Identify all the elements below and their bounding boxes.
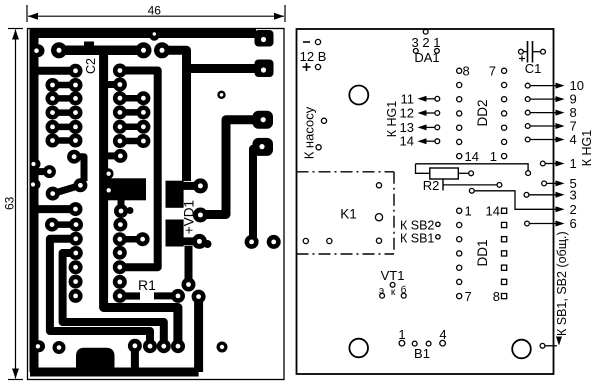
jumper bump on trace xyxy=(84,42,94,48)
capacitor C1 xyxy=(519,41,546,76)
svg-text:4: 4 xyxy=(570,132,577,147)
pad in left border y184 xyxy=(30,179,41,190)
pad bottom free xyxy=(53,341,66,354)
svg-text:3: 3 xyxy=(570,187,577,202)
svg-text:+VD1: +VD1 xyxy=(182,200,197,234)
big pad 4 xyxy=(253,138,274,156)
svg-text:14: 14 xyxy=(465,149,479,164)
svg-text:K1: K1 xyxy=(340,207,357,222)
hole bottom left xyxy=(349,339,368,358)
connector arrows right xyxy=(524,78,584,231)
svg-text:DD1: DD1 xyxy=(475,239,490,266)
trace diagonal xyxy=(46,178,88,200)
svg-text:12: 12 xyxy=(400,106,414,121)
trace dumbbell mid row y112.4 xyxy=(113,105,150,119)
trace pad4 down xyxy=(253,149,259,237)
resistor R1 trace xyxy=(113,289,185,303)
svg-text:11: 11 xyxy=(401,91,415,106)
svg-text:46: 46 xyxy=(148,4,162,18)
trace dumbbell left row y126.9 xyxy=(46,120,83,134)
trace dumbbell row225 xyxy=(45,218,83,232)
diode VD1 pad C xyxy=(166,220,212,249)
pad B xyxy=(193,208,208,223)
trace bus2 xyxy=(162,50,187,181)
svg-text:1: 1 xyxy=(465,204,472,219)
svg-text:13: 13 xyxy=(400,120,414,135)
dimension 63 line xyxy=(2,29,23,380)
pad bus2 start xyxy=(154,42,170,58)
12V plus pad xyxy=(303,63,321,71)
svg-text:DD2: DD2 xyxy=(475,99,490,126)
dimension 46 line xyxy=(27,4,285,23)
hole top left xyxy=(349,86,368,105)
left board outline xyxy=(28,29,285,380)
svg-text:К SB1, SB2 (общ.): К SB1, SB2 (общ.) xyxy=(555,231,569,336)
12V minus pad xyxy=(303,39,321,44)
big pad 2 xyxy=(255,60,274,78)
pad hole on bus1 y174 xyxy=(103,168,114,179)
wire K SB1 SB2 common xyxy=(540,231,569,348)
pad col75 y157 + L trace xyxy=(67,150,84,181)
copper area K-mirror xyxy=(104,178,146,200)
DD1 pin labels xyxy=(465,204,501,305)
trace dumbbell left row y140.5 xyxy=(46,134,83,148)
right board outline xyxy=(297,29,554,374)
trace dumbbell left row y112.6 xyxy=(46,106,83,120)
trace to pad2 xyxy=(187,64,255,73)
svg-text:63: 63 xyxy=(2,196,16,210)
trace stub bus1 to pad y156 xyxy=(105,149,127,163)
pad bottom 164 xyxy=(157,339,171,353)
hole in copper area xyxy=(107,188,111,192)
resistor R2 xyxy=(416,164,502,191)
svg-text:8: 8 xyxy=(493,289,500,304)
relay K1 outline xyxy=(297,172,395,254)
pad on top border xyxy=(150,31,160,41)
pad in left border y51 xyxy=(32,44,45,57)
pad in left border y164 xyxy=(30,159,41,170)
svg-text:1: 1 xyxy=(570,156,577,171)
transistor VT1 xyxy=(379,268,407,298)
big pad 1 xyxy=(255,30,274,47)
trace bottom-border riser to pad xyxy=(194,297,203,372)
svg-text:DA1: DA1 xyxy=(414,50,439,65)
trace VD1 down xyxy=(185,246,193,285)
trace dumbbell mid row y98.2 xyxy=(113,91,150,105)
trace dumbbell left row y98.4 xyxy=(46,91,83,105)
pad bottom 178 xyxy=(171,339,185,353)
svg-text:К насосу: К насосу xyxy=(302,106,317,159)
pump pad 2 xyxy=(316,145,321,150)
svg-text:14: 14 xyxy=(400,134,414,149)
svg-text:6: 6 xyxy=(570,216,577,231)
pad trace1 left xyxy=(51,42,67,58)
svg-text:1: 1 xyxy=(398,327,405,342)
pad col75 y239 xyxy=(69,232,83,246)
pad bottom 135 xyxy=(128,339,142,370)
copper blob bottom xyxy=(76,348,115,372)
diode VD1 pad A xyxy=(166,178,208,207)
border trace bottom xyxy=(30,368,199,377)
svg-text:4: 4 xyxy=(439,327,446,342)
svg-text:VT1: VT1 xyxy=(381,268,405,283)
svg-text:R1: R1 xyxy=(138,277,156,293)
svg-text:12 В: 12 В xyxy=(300,49,327,64)
relay pads xyxy=(303,183,382,244)
pad col75 y267 xyxy=(69,260,83,274)
trace bus4 xyxy=(206,120,258,215)
trace stub bus1 to pad y84 xyxy=(105,78,127,92)
svg-text:7: 7 xyxy=(465,289,472,304)
pad in left border y346 xyxy=(33,340,45,352)
border trace left+top xyxy=(34,34,256,373)
svg-text:2: 2 xyxy=(570,202,577,217)
chip DD2 pads xyxy=(457,68,507,158)
pad bottom right isolated xyxy=(217,342,228,353)
svg-text:14: 14 xyxy=(486,204,500,219)
wire DD2-14 to pad xyxy=(416,164,531,176)
svg-text:К HG1: К HG1 xyxy=(385,101,399,138)
trace C2 top xyxy=(59,46,144,56)
svg-text:э: э xyxy=(379,286,384,297)
svg-text:К SB2: К SB2 xyxy=(400,219,434,233)
svg-text:C1: C1 xyxy=(525,61,542,76)
pad below VD1 xyxy=(182,278,196,292)
hole bottom right xyxy=(512,340,531,359)
trace dumbbell row239 mid xyxy=(113,232,150,246)
pad col75 y253 xyxy=(69,246,83,260)
svg-text:8: 8 xyxy=(463,64,470,79)
svg-text:К HG1: К HG1 xyxy=(580,130,594,167)
connector B1 xyxy=(398,327,446,361)
trace bus1 vertical xyxy=(104,47,178,341)
trace bus3 xyxy=(120,71,158,268)
pad col75 y282 xyxy=(69,275,83,289)
via isolated xyxy=(217,91,225,99)
trace dumbbell left row y85.0 xyxy=(46,78,83,92)
connector arrows 11-14 xyxy=(400,91,440,148)
trace border to pad y172 xyxy=(36,165,56,178)
pad bottom 150 xyxy=(143,339,157,353)
svg-text:В1: В1 xyxy=(414,346,430,361)
pad trace1 right xyxy=(136,42,152,58)
pad on riser xyxy=(192,290,206,304)
big pad 3 xyxy=(253,111,274,129)
svg-text:К SB1: К SB1 xyxy=(400,232,434,246)
pad col120 y253 xyxy=(113,246,127,260)
trace dumbbell mid row y141.0 xyxy=(113,134,150,148)
pad isolated right xyxy=(267,235,281,249)
svg-text:C2: C2 xyxy=(84,58,98,74)
svg-text:б: б xyxy=(401,284,407,296)
DD2 pin labels xyxy=(463,64,498,165)
label K SB1 xyxy=(400,232,440,246)
pump pad 1 xyxy=(321,118,326,123)
svg-text:3 2 1: 3 2 1 xyxy=(412,35,441,50)
svg-text:1: 1 xyxy=(490,149,497,164)
trace border to pad y209 xyxy=(37,202,83,216)
label K SB2 xyxy=(400,219,440,233)
svg-text:к: к xyxy=(391,287,396,298)
chip DD1 pads xyxy=(457,208,507,299)
pad col75 y296 xyxy=(69,289,83,303)
svg-text:7: 7 xyxy=(489,64,496,79)
pad col120 y282 xyxy=(113,275,127,289)
pad col120 y70 xyxy=(113,64,127,78)
wire to pin2 xyxy=(469,188,576,216)
trace dumbbell mid row y126.8 xyxy=(113,120,150,134)
pad under pad4 xyxy=(245,235,259,249)
pad col120 y267 xyxy=(113,260,127,274)
trace L mid (row253) xyxy=(63,253,164,341)
pad col120 y225 xyxy=(113,218,127,232)
svg-text:R2: R2 xyxy=(423,178,440,193)
chip DA1 xyxy=(412,29,441,65)
trace stub area to pad211 xyxy=(114,199,134,218)
trace border to pad y71 xyxy=(37,64,83,78)
trace L inner (row239) xyxy=(50,239,150,341)
